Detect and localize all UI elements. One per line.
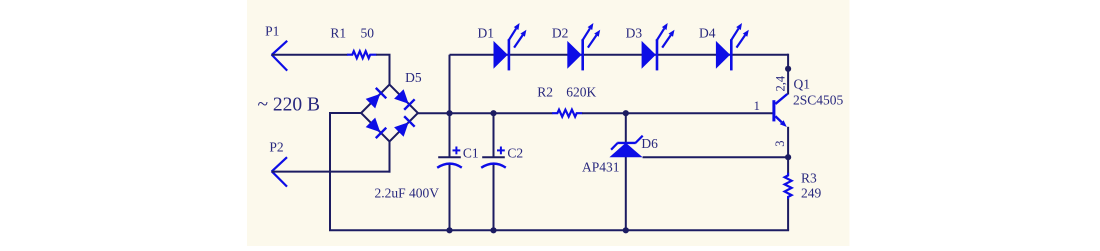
- svg-text:2,4: 2,4: [774, 75, 788, 91]
- node: mid rail / C2 junction: [490, 110, 496, 116]
- wire: LED feed / C1 branch: [449, 55, 451, 231]
- wire: R1 to bridge AC top: [376, 55, 390, 85]
- node: C2 / bottom rail: [490, 227, 496, 233]
- capacitor C2: [481, 146, 523, 168]
- resistor R3 249: [785, 157, 822, 230]
- svg-text:Q1: Q1: [794, 77, 811, 92]
- svg-text:2.2uF 400V: 2.2uF 400V: [375, 186, 440, 201]
- node: emitter / R3 / D6 ref junction: [785, 154, 791, 160]
- svg-text:C1: C1: [463, 146, 479, 161]
- svg-text:AP431: AP431: [582, 160, 620, 175]
- shunt regulator D6 AP431: [582, 136, 658, 175]
- wire: Q1 emitter down: [787, 127, 789, 157]
- svg-text:1: 1: [754, 99, 760, 113]
- svg-text:D1: D1: [478, 25, 495, 40]
- wire: bottom ground rail: [329, 229, 789, 231]
- LED D2: [552, 23, 600, 70]
- svg-text:~ 220 B: ~ 220 B: [258, 94, 321, 115]
- svg-text:50: 50: [361, 26, 375, 41]
- terminal P1: [265, 24, 287, 71]
- LED D3: [626, 23, 675, 70]
- resistor R2 620K: [537, 85, 596, 117]
- resistor R1 50: [330, 26, 376, 59]
- svg-text:R3: R3: [801, 170, 817, 185]
- node: collector pins 2,4: [774, 66, 792, 92]
- svg-text:249: 249: [801, 185, 822, 200]
- capacitor C1: [437, 146, 478, 168]
- svg-text:620K: 620K: [566, 85, 596, 100]
- wire: P2 to bridge AC bottom: [272, 141, 391, 172]
- wire: bridge DC+ rail to R2: [418, 112, 553, 114]
- svg-text:P1: P1: [265, 24, 279, 39]
- svg-text:3: 3: [773, 141, 787, 147]
- svg-text:R1: R1: [330, 26, 346, 41]
- LED D4: [699, 23, 749, 70]
- LED D1: [478, 23, 527, 70]
- wire: P1 to R1: [272, 54, 348, 56]
- node: R2 / D6 junction: [623, 110, 629, 116]
- svg-text:C2: C2: [507, 146, 523, 161]
- wire: LED string rail: [450, 54, 789, 56]
- node: D6 / bottom rail: [623, 227, 629, 233]
- svg-text:D2: D2: [552, 25, 569, 40]
- wire: bridge DC- to bottom rail: [329, 112, 361, 230]
- svg-text:D5: D5: [405, 70, 422, 85]
- svg-text:R2: R2: [537, 85, 553, 100]
- svg-text:D3: D3: [626, 25, 643, 40]
- transistor Q1 2SC4505: [754, 77, 844, 128]
- bridge rectifier D5: [361, 70, 422, 141]
- wire: R2 to Q1 base: [582, 112, 773, 114]
- node: C1 / bottom rail: [446, 227, 452, 233]
- wire: D6 cathode and anode branch: [625, 113, 627, 230]
- wire: LED rail to Q1 collector: [787, 54, 789, 95]
- node: mid rail / C1 junction: [446, 110, 452, 116]
- svg-text:2SC4505: 2SC4505: [793, 92, 844, 107]
- wire: C2 branch: [493, 113, 495, 230]
- svg-text:P2: P2: [269, 140, 283, 155]
- svg-text:D4: D4: [699, 25, 716, 40]
- wire: D6 reference to R3 top: [643, 156, 790, 158]
- svg-text:D6: D6: [641, 136, 658, 151]
- terminal P2: [269, 140, 287, 187]
